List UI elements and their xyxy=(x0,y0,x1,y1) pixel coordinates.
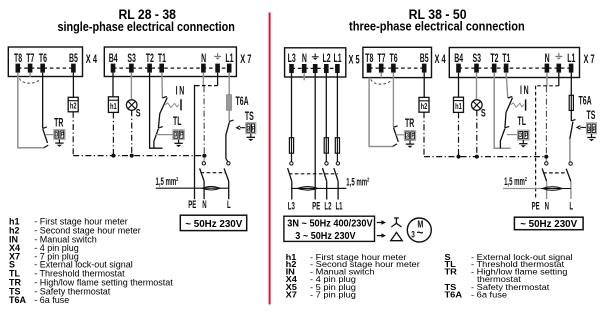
TR right switch arm xyxy=(394,128,399,142)
svg-text:~ 50Hz 230V: ~ 50Hz 230V xyxy=(185,218,242,230)
svg-text:PE: PE xyxy=(532,199,540,211)
label S right xyxy=(481,107,486,119)
terminal S3 of X7 right xyxy=(472,52,481,73)
svg-text:TR: TR xyxy=(405,117,414,130)
label N right xyxy=(545,199,549,211)
arrow to delta connection xyxy=(377,233,386,237)
L1 pole contact circle xyxy=(336,162,339,165)
L2 pole switch arm xyxy=(323,168,327,181)
svg-text:X 5: X 5 xyxy=(349,54,360,67)
wire from L1 right to fuse xyxy=(570,73,572,96)
svg-text:T1: T1 xyxy=(502,52,511,65)
X7 terminal strip dashed link xyxy=(113,67,229,69)
svg-text:I: I xyxy=(176,85,178,98)
svg-text:- 7 pin plug: - 7 pin plug xyxy=(310,290,356,300)
L wire to cable right xyxy=(570,181,572,199)
svg-text:T8: T8 xyxy=(14,52,23,65)
star (Y) connection symbol xyxy=(391,218,401,227)
wire bracket from T2 xyxy=(150,73,163,149)
mains cable lens (three-phase) xyxy=(292,187,346,191)
svg-text:P: P xyxy=(252,126,256,133)
thermostat TL box xyxy=(173,130,184,140)
connector block X4 right (4 pin plug) xyxy=(363,47,432,77)
dash-dot neutral wire N to bus xyxy=(203,86,205,155)
terminal T8 of X4 right xyxy=(365,52,374,73)
thermostat TS box xyxy=(246,123,256,134)
terminal L1 of X7 right xyxy=(567,52,576,73)
L1 wire to cable xyxy=(337,181,339,199)
label X 5 xyxy=(349,54,360,67)
L pole switch arm xyxy=(224,168,229,181)
wire from T1 to IN switch (grey) xyxy=(161,73,164,98)
svg-text:PE: PE xyxy=(188,198,196,210)
terminal B4 of X7 right xyxy=(454,52,463,73)
TR actuator link xyxy=(45,134,54,136)
wire stub below N of X5 (grey) xyxy=(303,73,305,81)
ground below TL right xyxy=(519,140,527,148)
svg-text:L1: L1 xyxy=(567,52,576,65)
wire stub below T7 xyxy=(29,73,31,78)
svg-text:TS: TS xyxy=(245,110,254,123)
threshold thermostat TL switch arm xyxy=(154,129,159,149)
svg-text:X 7: X 7 xyxy=(240,53,251,66)
fuse T6A right xyxy=(569,95,573,110)
wire from L1 to fuse (grey) xyxy=(228,73,230,95)
IN right actuator spring xyxy=(511,103,524,108)
label TR xyxy=(54,117,63,130)
label X 7 xyxy=(240,53,251,66)
TS right actuator link with arrow xyxy=(577,126,587,130)
wire stub below N (grey) xyxy=(202,73,204,87)
mains cable lens xyxy=(178,186,229,190)
dash-dot wire lamp right to bus xyxy=(476,110,478,156)
TL right contact tick xyxy=(505,126,509,128)
svg-text:N: N xyxy=(524,84,529,97)
fuse on L2 xyxy=(324,138,328,162)
terminal T8 of X4 xyxy=(14,52,23,73)
svg-text:L2: L2 xyxy=(322,52,331,65)
dash-dot neutral wire N right to bus xyxy=(545,86,547,156)
svg-text:T6A: T6A xyxy=(9,295,26,305)
L2 wire to cable xyxy=(326,181,328,199)
TS actuator link with arrow xyxy=(237,126,246,130)
terminal N of X7 right xyxy=(545,52,550,73)
wire from T6 right to TR switch (grey) xyxy=(392,73,394,128)
wire from B4 to h1 xyxy=(112,73,114,97)
fuse T6A (grey block) xyxy=(227,95,232,111)
svg-text:- 6a fuse: - 6a fuse xyxy=(34,295,69,305)
svg-text:N: N xyxy=(545,199,549,211)
svg-text:3 ~ 50Hz 230V: 3 ~ 50Hz 230V xyxy=(295,231,356,242)
connector block X5 (5 pin plug) xyxy=(285,48,346,77)
title: RL 38 - 50 xyxy=(409,7,467,22)
label TL right xyxy=(518,115,527,128)
terminal T1 of X7 right xyxy=(502,52,511,73)
svg-text:TR: TR xyxy=(54,117,63,130)
L pole contact circle right xyxy=(569,162,572,165)
label TS right xyxy=(587,109,596,122)
N wire to cable xyxy=(203,181,205,199)
L1 pole switch arm xyxy=(334,168,338,181)
wire from S3 to lamp (grey) xyxy=(130,73,132,100)
X7 right terminal strip dashed link xyxy=(459,67,572,69)
svg-text:L1: L1 xyxy=(334,52,343,65)
TR switch arm xyxy=(43,129,48,143)
earth terminal of X5 xyxy=(312,53,319,73)
label S xyxy=(136,107,141,119)
svg-text:N: N xyxy=(202,198,206,210)
right legend column 1 xyxy=(286,252,420,299)
svg-text:h2: h2 xyxy=(421,103,428,111)
label PE right xyxy=(532,199,540,211)
svg-text:X 4: X 4 xyxy=(86,53,97,66)
terminal B5 of X4 right xyxy=(420,52,429,73)
svg-text:T1: T1 xyxy=(158,52,167,65)
label L right xyxy=(569,199,573,211)
threshold thermostat TL right switch arm xyxy=(500,129,505,149)
terminal N of X5 xyxy=(302,52,307,73)
earth terminal of X7 xyxy=(214,53,221,73)
wire L1 down to fuse xyxy=(336,73,338,138)
three-pole switch dashed link xyxy=(289,173,338,175)
svg-text:h1: h1 xyxy=(110,103,117,111)
terminal L3 of X5 xyxy=(288,52,297,73)
svg-text:X 4: X 4 xyxy=(435,53,446,66)
svg-text:3: 3 xyxy=(411,229,415,240)
label TL xyxy=(173,115,182,128)
leader line 1,5 mm2 right (grey) xyxy=(503,188,541,190)
supply rating box ~50Hz 230V right xyxy=(514,217,583,230)
svg-text:N: N xyxy=(302,52,307,65)
svg-text:TS: TS xyxy=(587,109,596,122)
N pole switch arm xyxy=(200,168,205,181)
label 1,5 mm2 (three-phase) xyxy=(346,176,369,188)
ground below TL xyxy=(174,140,182,148)
terminal L1 of X5 xyxy=(334,52,343,73)
connector block X7 right (7 pin plug) xyxy=(449,48,579,78)
wire from T6 down to TR switch xyxy=(42,73,44,129)
TS right contact tick xyxy=(571,120,575,121)
svg-text:h1: h1 xyxy=(455,103,462,111)
label PE xyxy=(188,198,196,210)
terminal T6 of X4 xyxy=(39,52,48,73)
left legend xyxy=(9,217,173,306)
junction dot h1 right/bus xyxy=(457,155,461,159)
svg-text:T7: T7 xyxy=(377,52,386,65)
svg-text:N: N xyxy=(545,52,550,65)
TR right contact ticks xyxy=(393,126,398,147)
svg-text:P: P xyxy=(411,133,415,140)
label X 7 right xyxy=(584,53,595,66)
label L3 xyxy=(288,200,295,212)
N pole switch arm right xyxy=(542,168,547,181)
mains cable lens right xyxy=(541,187,571,191)
label L1 (three-phase) xyxy=(335,200,342,212)
svg-text:N: N xyxy=(201,52,206,65)
ground below TS right xyxy=(587,134,595,142)
wire from B5 to h2 xyxy=(72,73,74,98)
L pole contact circle xyxy=(227,162,230,165)
label L2 xyxy=(324,200,331,212)
dashed earth link from X7 right earth terminal xyxy=(536,73,559,199)
svg-text:P: P xyxy=(180,132,184,139)
delta connection symbol xyxy=(391,232,403,240)
L3 pole contact circle xyxy=(290,162,293,165)
svg-text:S: S xyxy=(481,107,486,119)
neutral bus dash-dot (left) xyxy=(73,155,204,157)
junction dot lamp/bus xyxy=(130,154,134,158)
IN switch contact tick xyxy=(162,96,167,98)
svg-text:T6A: T6A xyxy=(236,95,249,108)
ground below TR right xyxy=(406,140,414,148)
thermostat TL right box xyxy=(518,130,529,140)
svg-text:L1: L1 xyxy=(335,200,342,212)
terminal T7 of X4 xyxy=(26,52,35,73)
svg-text:T6A: T6A xyxy=(579,95,592,108)
subtitle: single-phase electrical connection xyxy=(57,19,235,34)
terminal L2 of X5 xyxy=(322,52,331,73)
svg-text:N: N xyxy=(179,85,184,98)
dash-dot wire h2 to bus xyxy=(72,112,74,156)
supply rating box ~50Hz 230V xyxy=(180,215,246,230)
TL actuator link xyxy=(156,134,173,136)
leader line for 1,5 mm2 xyxy=(156,187,179,189)
svg-text:T2: T2 xyxy=(146,52,155,65)
svg-text:T7: T7 xyxy=(26,52,35,65)
red divider line between diagrams xyxy=(269,13,271,305)
TR switch contact tick xyxy=(43,127,49,148)
L pole switch arm right xyxy=(566,169,571,182)
label X 4 xyxy=(86,53,97,66)
svg-text:S3: S3 xyxy=(472,52,481,65)
wire fuse to TS switch (grey) xyxy=(228,110,230,121)
junction dot lamp right/bus xyxy=(475,155,479,159)
fuse on L3 xyxy=(289,138,293,162)
terminal S3 of X7 xyxy=(127,52,136,73)
thermostat TR box xyxy=(54,130,65,140)
switch mechanical dashed link xyxy=(201,172,226,174)
dash-dot wire h2 right to bus xyxy=(423,112,425,156)
svg-text:3N ~ 50Hz 400/230V: 3N ~ 50Hz 400/230V xyxy=(287,218,373,229)
svg-text:T6: T6 xyxy=(390,52,399,65)
svg-text:PE: PE xyxy=(312,200,320,212)
earth terminal of X7 right xyxy=(555,53,562,73)
right legend column 2 xyxy=(445,252,573,299)
TL right actuator link xyxy=(507,134,518,136)
neutral bus dash-dot (right) xyxy=(424,156,546,158)
terminal T1 of X7 xyxy=(158,52,167,73)
subtitle: three-phase electrical connection xyxy=(349,19,525,34)
label 1,5 mm2 right xyxy=(504,175,527,187)
N pole contact circle right xyxy=(545,162,548,165)
TS switch contact tick xyxy=(229,120,233,121)
svg-text:L: L xyxy=(227,198,231,210)
IN actuator spring xyxy=(165,103,179,108)
N pole contact circle xyxy=(202,162,205,165)
svg-text:L: L xyxy=(569,199,573,211)
label X 4 right xyxy=(435,53,446,66)
thermostat TS right box xyxy=(587,123,597,134)
earth wire from X7 earth terminal xyxy=(194,73,218,200)
svg-text:h2: h2 xyxy=(70,103,77,111)
svg-text:P: P xyxy=(61,132,65,139)
X5 terminal strip dashed link xyxy=(292,67,338,69)
ground below TR xyxy=(55,139,63,147)
svg-text:1,5 mm²: 1,5 mm² xyxy=(155,175,178,187)
wire fuse right to TS switch xyxy=(570,110,572,121)
wire from B5 right to h2 xyxy=(423,73,425,98)
svg-text:S3: S3 xyxy=(127,52,136,65)
N wire to cable right xyxy=(546,181,548,199)
terminal B4 of X7 xyxy=(109,52,118,73)
svg-text:B5: B5 xyxy=(420,52,429,65)
lock-out signal lamp S xyxy=(126,100,137,111)
svg-text:B4: B4 xyxy=(109,52,118,65)
X4 right terminal strip dashed link xyxy=(369,67,424,69)
arrow to star connection xyxy=(377,220,386,224)
label TR right xyxy=(405,117,414,130)
hour meter h2 box xyxy=(68,97,78,112)
L wire to cable xyxy=(228,181,230,199)
svg-text:S: S xyxy=(136,107,141,119)
label T6A xyxy=(236,95,249,108)
terminal N of X7 xyxy=(201,52,206,73)
TR right actuator link xyxy=(396,134,405,136)
X4 terminal strip dashed link xyxy=(18,67,74,69)
switch dashed link right xyxy=(543,172,567,174)
svg-text:T8: T8 xyxy=(365,52,374,65)
terminal T6 of X4 right xyxy=(390,52,399,73)
svg-text:L2: L2 xyxy=(324,200,331,212)
svg-text:P: P xyxy=(525,133,529,140)
svg-text:L3: L3 xyxy=(288,52,297,65)
label I N xyxy=(176,85,185,98)
lock-out signal lamp S right xyxy=(472,100,483,111)
terminal L1 of X7 xyxy=(225,52,234,73)
safety thermostat TS switch arm xyxy=(226,122,230,162)
connector block X7 (7 pin plug) xyxy=(104,47,236,77)
terminal T7 of X4 right xyxy=(377,52,386,73)
svg-text:P: P xyxy=(593,126,597,133)
svg-text:L3: L3 xyxy=(288,200,295,212)
svg-text:B4: B4 xyxy=(454,52,463,65)
dash-dot wire h1 right to bus xyxy=(458,112,460,156)
wire L3 down to fuse xyxy=(291,73,293,138)
wire from S3 right to lamp (grey) xyxy=(476,73,478,100)
label N xyxy=(202,198,206,210)
label L xyxy=(227,198,231,210)
svg-text:1,5 mm²: 1,5 mm² xyxy=(346,176,369,188)
wire stub below N right (grey) xyxy=(546,73,548,87)
svg-text:L1: L1 xyxy=(225,52,234,65)
wire from T8 down and right to TR contact (grey) xyxy=(18,73,44,148)
hour meter h2 right box xyxy=(419,97,429,112)
svg-text:TL: TL xyxy=(518,115,527,128)
svg-text:X7: X7 xyxy=(286,290,297,300)
junction dot h1/bus xyxy=(111,154,115,158)
terminal T2 of X7 xyxy=(146,52,155,73)
wire stub below T7 right xyxy=(380,73,382,78)
wire from B4 right to h1 xyxy=(458,73,460,98)
wire from T1 right to IN switch (grey) xyxy=(506,73,508,98)
TS right wire to L pole (grey) xyxy=(569,139,571,162)
label I N right xyxy=(520,84,529,97)
manual switch IN right arm xyxy=(505,98,513,128)
svg-text:TL: TL xyxy=(173,115,182,128)
svg-text:TR: TR xyxy=(445,267,458,277)
manual switch IN arm xyxy=(158,98,167,129)
dashed jumper arc T8-T6 below X4 right xyxy=(371,79,391,84)
svg-text:B5: B5 xyxy=(69,52,78,65)
fuse on L1 xyxy=(335,138,339,162)
wire from T8 right down and right to TR contact (grey) xyxy=(369,78,393,147)
svg-text:~: ~ xyxy=(417,228,424,240)
connector block X4 (4 pin plug) xyxy=(8,47,82,77)
svg-text:1,5 mm²: 1,5 mm² xyxy=(504,175,527,187)
svg-text:T6: T6 xyxy=(39,52,48,65)
safety thermostat TS right switch arm xyxy=(570,122,573,139)
L3 pole switch arm xyxy=(288,168,292,181)
supply rating box 3N xyxy=(284,216,375,242)
wire bracket from T2 right (grey) xyxy=(494,73,510,149)
svg-text:three-phase electrical connect: three-phase electrical connection xyxy=(349,19,525,34)
dashed jumper arc T8-T6 below X4 xyxy=(20,78,40,83)
terminal T2 of X7 right xyxy=(490,52,499,73)
junction dot bus end xyxy=(202,154,206,162)
wire L2 down to fuse xyxy=(325,73,327,138)
label 1,5 mm2 xyxy=(155,175,178,187)
svg-text:single-phase electrical connec: single-phase electrical connection xyxy=(57,19,235,34)
svg-text:T6A: T6A xyxy=(445,290,463,300)
svg-text:X 7: X 7 xyxy=(584,53,595,66)
svg-text:I: I xyxy=(520,84,522,97)
IN right contact tick xyxy=(508,96,513,98)
IN actuator bar xyxy=(180,99,182,110)
PE wire from X5 earth xyxy=(314,73,316,200)
motor M 3~ symbol xyxy=(407,218,431,242)
dash-dot wire lamp to bus xyxy=(131,110,133,155)
label PE (three-phase) xyxy=(312,200,320,212)
svg-text:T2: T2 xyxy=(490,52,499,65)
junction dot bus end right xyxy=(544,155,548,162)
L2 pole contact circle xyxy=(325,162,328,165)
label T6A right xyxy=(579,95,592,108)
TL switch contact tick xyxy=(158,127,162,129)
IN right actuator bar xyxy=(525,99,527,110)
label TS xyxy=(245,110,254,123)
leader line 1,5 mm2 (three-phase) xyxy=(338,187,346,189)
hour meter h1 right box xyxy=(454,97,464,112)
L3 wire to cable xyxy=(291,181,293,199)
svg-text:~ 50Hz 230V: ~ 50Hz 230V xyxy=(520,218,577,230)
thermostat TR right box xyxy=(404,131,415,141)
title: RL 28 - 38 xyxy=(118,7,176,22)
svg-text:- 6a fuse: - 6a fuse xyxy=(471,290,507,300)
dash-dot wire h1 to bus xyxy=(112,112,114,155)
terminal B5 of X4 xyxy=(69,52,78,73)
hour meter h1 box xyxy=(108,97,118,113)
ground below TS xyxy=(247,134,255,142)
